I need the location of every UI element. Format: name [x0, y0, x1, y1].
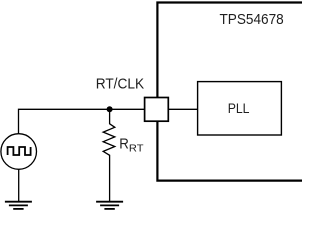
wire: clock source to junction to pin	[19, 109, 145, 133]
IC outline U1 TPS54678	[157, 3, 302, 181]
clock waveform glyph	[8, 147, 31, 155]
pin box RT/CLK	[145, 98, 169, 122]
svg-text:RT/CLK: RT/CLK	[96, 76, 145, 92]
svg-text:RT: RT	[129, 144, 144, 155]
svg-text:PLL: PLL	[228, 100, 250, 116]
svg-text:TPS54678: TPS54678	[220, 12, 284, 28]
clock source V1	[1, 134, 37, 170]
wire: clock source to ground	[18, 169, 20, 201]
resistor R_RT	[103, 109, 115, 201]
PLL block	[198, 82, 282, 135]
wire: pin to PLL	[168, 108, 197, 110]
ground (resistor)	[96, 202, 123, 209]
node junction dot	[107, 106, 113, 112]
svg-text:R: R	[119, 137, 129, 153]
ground (clock source)	[5, 202, 32, 209]
